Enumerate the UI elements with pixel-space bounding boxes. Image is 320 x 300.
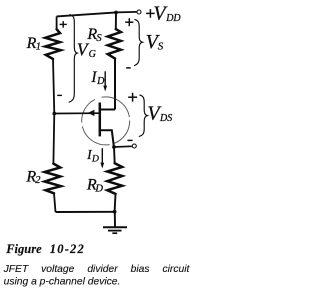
label RD (86, 176, 104, 194)
svg-text:using a p-channel device.: using a p-channel device. (4, 277, 121, 288)
node drain junction dot (112, 145, 116, 149)
transistor Q1 channel bar (99, 103, 102, 137)
node bottom junction dot (113, 210, 117, 214)
svg-text:D: D (91, 155, 99, 165)
wire R1 top lead (56, 16, 58, 29)
svg-text:2: 2 (35, 175, 41, 186)
svg-text:DD: DD (165, 13, 181, 24)
wire RD bottom to ground rail (114, 194, 117, 212)
arrow gate (p-channel) (88, 110, 95, 116)
caption figure number (5, 242, 85, 256)
ground (103, 212, 127, 233)
wire top right to supply terminal (116, 11, 137, 14)
svg-text:JFET voltage divider bias circ: JFET voltage divider bias circuit (3, 264, 191, 275)
label VG (77, 39, 96, 60)
brace VDS (139, 95, 148, 137)
minus sign VDS (127, 139, 132, 141)
brace VG (69, 15, 78, 103)
resistor R1 (45, 29, 61, 59)
resistor RD (107, 163, 122, 194)
arrow ID upper (103, 71, 107, 91)
resistor RS (108, 29, 121, 58)
plus sign VG (60, 21, 67, 28)
label VDS (147, 103, 172, 125)
svg-text:DS: DS (159, 113, 172, 124)
wire top rail (57, 12, 116, 16)
label R1 (26, 35, 41, 53)
label RS (86, 26, 102, 44)
wire drain junction to RD (113, 147, 116, 163)
transistor Q1 source lead (100, 109, 115, 111)
transistor Q1 envelope circle (78, 93, 134, 149)
plus sign VS (125, 18, 133, 26)
resistor RS top lead (115, 13, 117, 30)
label VS (146, 31, 164, 53)
minus sign VG (57, 94, 62, 96)
node top junction dot (114, 11, 118, 15)
wire R1 bottom to gate junction (53, 59, 54, 114)
transistor Q1 drain lead (100, 130, 114, 147)
label ID upper (90, 69, 105, 87)
resistor R2 (45, 164, 61, 194)
svg-text:D: D (96, 76, 105, 87)
label ID lower (86, 147, 99, 165)
wire gate lead (54, 112, 99, 114)
node gate junction dot (52, 112, 56, 116)
svg-text:10-22: 10-22 (50, 242, 85, 256)
wire drain to output terminal (114, 145, 132, 148)
svg-text:S: S (158, 41, 164, 53)
brace VS (134, 19, 143, 65)
arrow ID lower (100, 148, 104, 168)
svg-text:1: 1 (36, 42, 41, 53)
svg-text:Figure: Figure (5, 242, 42, 256)
svg-text:G: G (89, 49, 96, 60)
svg-text:D: D (94, 183, 103, 194)
label +VDD (146, 3, 181, 25)
label R2 (25, 168, 41, 186)
wire gate junction to R2 (52, 114, 55, 164)
terminal +VDD open circle (137, 10, 141, 14)
minus sign VS (126, 67, 131, 69)
svg-text:S: S (96, 33, 102, 44)
plus sign VDS (128, 93, 137, 102)
wire bottom rail (56, 211, 115, 213)
wire RS bottom to source (114, 59, 116, 110)
terminal output open circle (132, 144, 136, 148)
wire R2 bottom to ground rail (54, 193, 56, 212)
